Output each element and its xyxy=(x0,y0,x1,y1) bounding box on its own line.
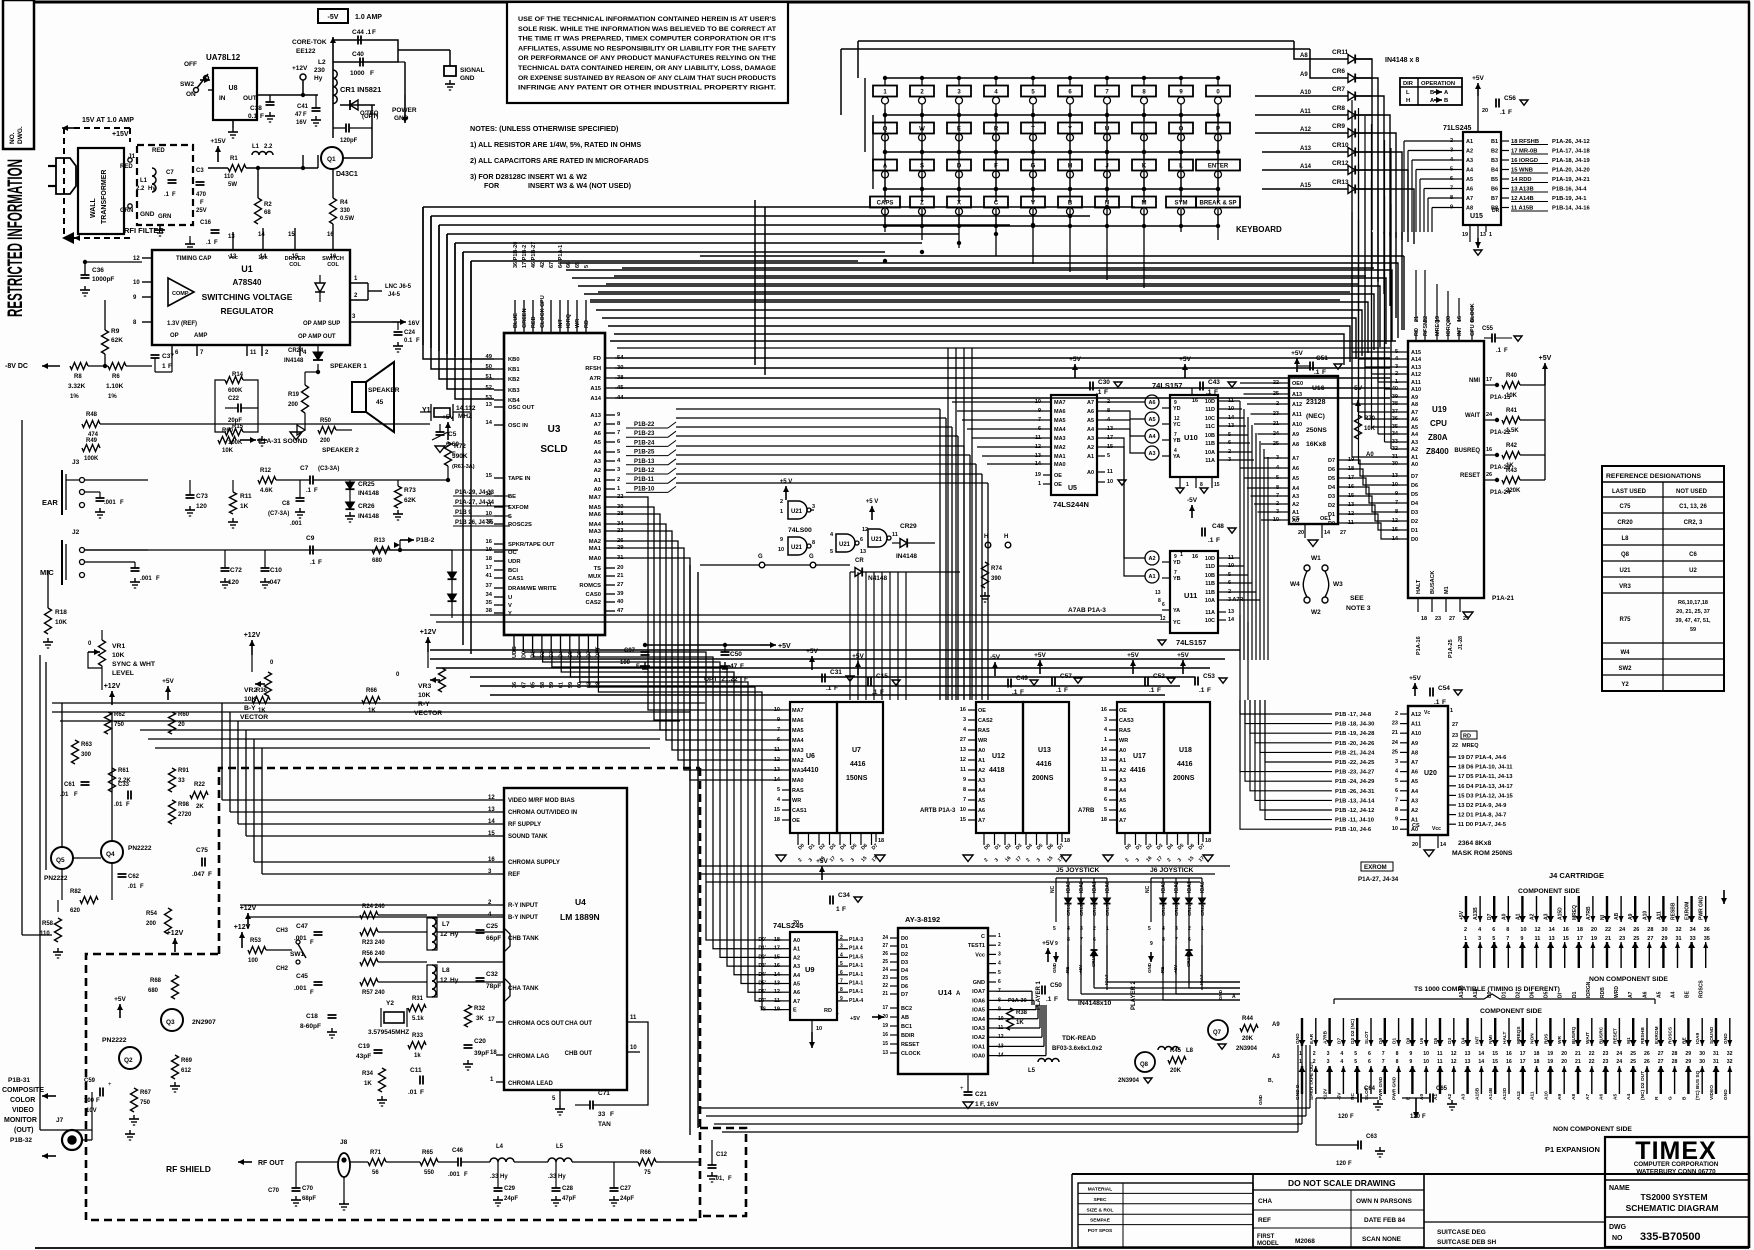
svg-text:2K: 2K xyxy=(196,804,204,810)
svg-text:-5V: -5V xyxy=(1187,497,1198,504)
svg-text:3: 3 xyxy=(1478,936,1481,942)
svg-text:CHROMA OUT/VIDEO IN: CHROMA OUT/VIDEO IN xyxy=(508,810,577,816)
svg-text:8: 8 xyxy=(1396,1059,1399,1065)
svg-text:MASK ROM 250NS: MASK ROM 250NS xyxy=(1452,850,1513,857)
svg-text:CR25: CR25 xyxy=(358,481,375,488)
svg-text:CR1 IN5821: CR1 IN5821 xyxy=(340,85,381,94)
svg-text:DWG: DWG xyxy=(1609,1224,1627,1231)
svg-text:16: 16 xyxy=(1506,1051,1512,1057)
svg-text:B,: B, xyxy=(1268,1078,1274,1084)
svg-text:R66: R66 xyxy=(640,1150,652,1156)
svg-text:24: 24 xyxy=(882,935,888,941)
svg-text:IOA0: IOA0 xyxy=(972,1054,985,1060)
svg-text:23: 23 xyxy=(1603,1051,1609,1057)
svg-text:A1: A1 xyxy=(793,947,800,953)
svg-text:CAS3: CAS3 xyxy=(1119,718,1134,724)
svg-text:C12: C12 xyxy=(716,1152,728,1158)
svg-text:YA: YA xyxy=(1173,608,1180,614)
svg-text:FOR: FOR xyxy=(484,181,500,190)
svg-text:11: 11 xyxy=(486,502,493,508)
svg-text:A1: A1 xyxy=(1411,455,1418,461)
svg-text:YB: YB xyxy=(1173,438,1181,444)
svg-text:D3: D3 xyxy=(1328,494,1335,500)
svg-text:5: 5 xyxy=(840,961,843,967)
svg-text:B: B xyxy=(1430,90,1434,96)
svg-text:WR: WR xyxy=(1557,1035,1563,1044)
svg-text:A14B: A14B xyxy=(1488,1087,1494,1100)
svg-text:16: 16 xyxy=(486,539,493,545)
svg-text:3: 3 xyxy=(1104,717,1107,723)
svg-text:11A: 11A xyxy=(1205,610,1215,616)
svg-text:335-B70500: 335-B70500 xyxy=(1640,1231,1701,1243)
svg-text:16: 16 xyxy=(1506,1059,1512,1065)
svg-text:A4: A4 xyxy=(1119,788,1127,794)
svg-text:A5: A5 xyxy=(1292,476,1299,482)
svg-text:PWR GND: PWR GND xyxy=(1392,1076,1398,1100)
svg-text:R56 240: R56 240 xyxy=(362,951,385,957)
svg-text:P1B-2: P1B-2 xyxy=(416,537,435,544)
svg-text:C32: C32 xyxy=(486,971,498,978)
svg-text:A5: A5 xyxy=(1411,779,1418,785)
svg-text:UA78L12: UA78L12 xyxy=(206,53,241,62)
svg-text:P1B-14, J4-16: P1B-14, J4-16 xyxy=(1552,206,1590,212)
svg-text:OE0: OE0 xyxy=(1292,381,1303,387)
svg-text:F: F xyxy=(214,240,218,246)
svg-text:1K: 1K xyxy=(240,503,249,510)
svg-text:12: 12 xyxy=(133,256,140,262)
svg-text:150NS: 150NS xyxy=(846,775,868,782)
svg-text:R69: R69 xyxy=(181,1058,193,1064)
svg-text:30: 30 xyxy=(1661,927,1667,933)
svg-text:TECHNICAL DATA CONTAINED HEREI: TECHNICAL DATA CONTAINED HEREIN, OR ANY … xyxy=(518,65,776,72)
svg-text:F: F xyxy=(310,990,314,996)
svg-text:19: 19 xyxy=(1035,472,1041,478)
svg-text:5: 5 xyxy=(830,549,833,555)
svg-text:R12: R12 xyxy=(260,468,272,474)
svg-text:A3: A3 xyxy=(793,964,800,970)
svg-text:R31: R31 xyxy=(412,996,424,1002)
svg-text:P1A-19, J4-21: P1A-19, J4-21 xyxy=(1552,177,1590,183)
svg-text:A1: A1 xyxy=(594,478,602,484)
svg-text:C50: C50 xyxy=(730,651,742,658)
svg-text:F: F xyxy=(416,338,420,344)
svg-text:A14: A14 xyxy=(1300,164,1312,170)
svg-text:R38: R38 xyxy=(1016,1010,1028,1016)
svg-text:A11: A11 xyxy=(1411,380,1421,386)
svg-text:D6: D6 xyxy=(1411,483,1418,489)
svg-text:F: F xyxy=(1104,389,1108,396)
svg-text:1K: 1K xyxy=(368,708,376,714)
svg-text:R43: R43 xyxy=(1506,468,1518,474)
svg-text:R91: R91 xyxy=(178,768,190,774)
svg-text:3: 3 xyxy=(840,944,843,950)
svg-text:14: 14 xyxy=(1324,530,1331,536)
svg-text:CAS2: CAS2 xyxy=(978,718,993,724)
svg-text:24: 24 xyxy=(1619,927,1626,933)
svg-text:A7AB P1A-3: A7AB P1A-3 xyxy=(1068,607,1106,614)
svg-text:YC: YC xyxy=(1173,620,1181,626)
svg-text:1: 1 xyxy=(836,1010,839,1016)
svg-text:MHZ: MHZ xyxy=(458,413,472,420)
svg-text:1K: 1K xyxy=(364,1081,372,1087)
svg-text:56: 56 xyxy=(372,1170,379,1176)
svg-text:27: 27 xyxy=(1340,530,1346,536)
svg-text:A6: A6 xyxy=(594,431,602,437)
svg-text:POWER: POWER xyxy=(392,107,417,114)
svg-text:F: F xyxy=(372,29,376,36)
svg-text:OC: OC xyxy=(508,550,518,556)
svg-text:C54: C54 xyxy=(1438,685,1450,692)
svg-text:RD: RD xyxy=(824,1008,832,1014)
svg-text:CR19: CR19 xyxy=(1161,904,1166,916)
svg-text:BDIR: BDIR xyxy=(901,1033,914,1039)
svg-text:C38: C38 xyxy=(250,105,262,112)
svg-text:A6: A6 xyxy=(1411,417,1418,423)
svg-text:A15: A15 xyxy=(1411,350,1421,356)
svg-text:A13: A13 xyxy=(1411,365,1421,371)
svg-text:F: F xyxy=(728,1176,732,1182)
svg-text:6: 6 xyxy=(1162,602,1165,608)
svg-text:18: 18 xyxy=(878,838,884,844)
svg-text:A5: A5 xyxy=(978,798,985,804)
svg-text:26: 26 xyxy=(1486,472,1492,478)
svg-text:P1B -17, J4-8: P1B -17, J4-8 xyxy=(1335,712,1372,718)
svg-text:13: 13 xyxy=(1465,1059,1471,1065)
svg-text:R68: R68 xyxy=(150,978,162,984)
svg-text:C64: C64 xyxy=(1364,1086,1376,1092)
svg-text:CR22: CR22 xyxy=(1200,904,1205,916)
svg-text:G: G xyxy=(809,554,814,560)
svg-text:3: 3 xyxy=(963,717,966,723)
svg-text:2: 2 xyxy=(617,477,620,483)
svg-text:A6: A6 xyxy=(1599,1094,1605,1100)
svg-text:A11: A11 xyxy=(1530,1091,1536,1100)
svg-text:Vcc: Vcc xyxy=(975,952,985,958)
svg-text:39pF: 39pF xyxy=(474,1050,489,1057)
svg-text:18: 18 xyxy=(774,817,780,823)
svg-text:A12: A12 xyxy=(1411,712,1421,718)
svg-text:18: 18 xyxy=(1064,838,1070,844)
svg-text:GRN: GRN xyxy=(158,214,171,220)
svg-text:Q3: Q3 xyxy=(166,1019,175,1026)
svg-text:C22: C22 xyxy=(228,396,240,402)
svg-text:C41: C41 xyxy=(297,104,309,110)
svg-text:34: 34 xyxy=(486,592,493,598)
svg-text:P1B -18, J4-30: P1B -18, J4-30 xyxy=(1335,722,1374,728)
svg-text:.001: .001 xyxy=(448,1172,460,1178)
svg-text:OSC IN: OSC IN xyxy=(508,423,528,429)
svg-text:J5 JOYSTICK: J5 JOYSTICK xyxy=(1056,867,1100,874)
svg-text:C65: C65 xyxy=(1436,1086,1448,1092)
svg-text:A12: A12 xyxy=(1516,1091,1522,1100)
svg-text:27: 27 xyxy=(1452,722,1458,728)
svg-text:CHROMA LAG: CHROMA LAG xyxy=(508,1054,549,1060)
svg-text:16V: 16V xyxy=(408,320,420,327)
svg-text:C53: C53 xyxy=(1203,673,1215,680)
svg-text:R41: R41 xyxy=(1506,408,1518,414)
svg-text:11: 11 xyxy=(250,350,257,356)
svg-text:C73: C73 xyxy=(196,493,208,500)
svg-text:A6: A6 xyxy=(1119,808,1126,814)
svg-text:Vcc: Vcc xyxy=(1432,826,1441,832)
svg-text:SEE: SEE xyxy=(1350,595,1364,602)
svg-text:1: 1 xyxy=(975,1101,979,1108)
svg-text:P1A-1: P1A-1 xyxy=(849,963,863,969)
svg-text:0.1: 0.1 xyxy=(404,338,413,344)
svg-text:RESTRICTED INFORMATION: RESTRICTED INFORMATION xyxy=(4,159,27,317)
svg-text:CR9: CR9 xyxy=(1332,123,1345,130)
svg-text:620: 620 xyxy=(70,908,81,914)
svg-text:L8: L8 xyxy=(442,967,450,974)
svg-text:24pF: 24pF xyxy=(504,1196,518,1202)
svg-text:.1: .1 xyxy=(1046,996,1052,1003)
svg-text:46 P1B-27: 46 P1B-27 xyxy=(531,242,537,268)
svg-text:J2: J2 xyxy=(72,529,80,536)
svg-text:MA4: MA4 xyxy=(589,522,602,528)
svg-text:24: 24 xyxy=(1616,1051,1622,1057)
svg-text:P1A-3: P1A-3 xyxy=(849,937,863,943)
svg-text:R66: R66 xyxy=(366,688,378,694)
svg-text:Hy: Hy xyxy=(450,977,459,984)
svg-text:GRN: GRN xyxy=(120,208,133,214)
svg-text:D5: D5 xyxy=(901,976,908,982)
svg-text:12: 12 xyxy=(486,491,492,497)
svg-text:21: 21 xyxy=(1414,316,1420,322)
svg-text:.001: .001 xyxy=(104,500,116,506)
svg-text:21: 21 xyxy=(1575,1059,1581,1065)
svg-text:GND: GND xyxy=(1258,1094,1263,1105)
svg-text:23: 23 xyxy=(1435,616,1441,622)
svg-text:1: 1 xyxy=(1180,552,1183,558)
svg-text:IOA0: IOA0 xyxy=(1105,881,1111,893)
svg-text:CR20: CR20 xyxy=(1617,520,1633,526)
svg-text:MATERIAL: MATERIAL xyxy=(1088,1187,1112,1193)
svg-text:P1A-18, J4-19: P1A-18, J4-19 xyxy=(1552,158,1590,164)
svg-text:30: 30 xyxy=(1699,1051,1705,1057)
svg-text:MA4: MA4 xyxy=(1054,427,1067,433)
svg-text:SUITCASE DEG: SUITCASE DEG xyxy=(1437,1229,1486,1236)
svg-text:5: 5 xyxy=(1107,453,1110,459)
svg-text:17 D5 P1A-11, J4-13: 17 D5 P1A-11, J4-13 xyxy=(1458,774,1513,780)
svg-text:A9: A9 xyxy=(1272,1022,1280,1028)
svg-text:C47: C47 xyxy=(296,923,308,930)
svg-text:IORGN: IORGN xyxy=(1586,981,1592,998)
svg-text:R54: R54 xyxy=(146,911,158,917)
svg-text:L4: L4 xyxy=(496,1144,504,1150)
svg-text:5: 5 xyxy=(1354,1051,1357,1057)
svg-text:(C3-3A): (C3-3A) xyxy=(318,466,339,472)
svg-text:13: 13 xyxy=(1155,590,1161,596)
svg-text:M2068: M2068 xyxy=(1295,1238,1315,1245)
svg-text:5: 5 xyxy=(584,265,590,268)
svg-text:9: 9 xyxy=(1409,1059,1412,1065)
svg-text:A10: A10 xyxy=(1543,1091,1549,1100)
svg-text:1000: 1000 xyxy=(350,70,365,77)
svg-text:U6: U6 xyxy=(806,753,815,760)
svg-text:10: 10 xyxy=(1107,479,1113,485)
svg-text:P1B -23, J4-27: P1B -23, J4-27 xyxy=(1335,770,1374,776)
svg-text:9: 9 xyxy=(1104,777,1107,783)
svg-text:9: 9 xyxy=(1150,941,1153,947)
svg-text:R82: R82 xyxy=(70,889,82,895)
svg-text:IOA3: IOA3 xyxy=(1161,881,1167,893)
svg-text:IOA1: IOA1 xyxy=(1092,881,1098,893)
svg-text:A7: A7 xyxy=(1411,760,1418,766)
svg-text:C34: C34 xyxy=(838,892,850,899)
svg-text:A13: A13 xyxy=(1292,392,1302,398)
svg-text:+5V: +5V xyxy=(850,1016,860,1022)
svg-text:17: 17 xyxy=(1520,1059,1526,1065)
svg-text:C50: C50 xyxy=(1050,982,1062,989)
svg-text:20: 20 xyxy=(1298,530,1304,536)
svg-text:9: 9 xyxy=(840,996,843,1002)
svg-text:47pF: 47pF xyxy=(562,1196,576,1202)
svg-text:U14: U14 xyxy=(938,988,953,997)
svg-text:GREEN: GREEN xyxy=(522,308,528,328)
svg-text:20: 20 xyxy=(1482,108,1488,114)
svg-text:A10: A10 xyxy=(1411,387,1421,393)
svg-text:28: 28 xyxy=(1672,1059,1678,1065)
svg-text:C45: C45 xyxy=(296,973,308,980)
svg-text:U21: U21 xyxy=(839,542,851,548)
svg-text:19: 19 xyxy=(1435,316,1441,322)
svg-text:1.10K: 1.10K xyxy=(106,383,124,390)
svg-text:VR3: VR3 xyxy=(418,683,431,690)
svg-text:A6: A6 xyxy=(793,990,800,996)
svg-text:P1B-22: P1B-22 xyxy=(634,422,655,428)
svg-text:52: 52 xyxy=(486,385,492,391)
svg-text:C5: C5 xyxy=(448,431,457,438)
svg-text:A14: A14 xyxy=(590,396,601,402)
svg-text:11: 11 xyxy=(1437,1059,1443,1065)
svg-text:W4: W4 xyxy=(1621,650,1631,656)
svg-text:PN2222: PN2222 xyxy=(44,875,68,882)
svg-text:9: 9 xyxy=(1409,1051,1412,1057)
svg-text:200: 200 xyxy=(320,438,331,444)
svg-text:R: R xyxy=(1654,1096,1660,1100)
svg-text:B7: B7 xyxy=(1491,196,1498,202)
svg-text:U21: U21 xyxy=(791,509,803,515)
svg-text:F: F xyxy=(1348,1161,1352,1167)
svg-text:DIR: DIR xyxy=(1403,81,1414,87)
svg-text:11B: 11B xyxy=(1205,441,1215,447)
svg-text:C56: C56 xyxy=(1504,95,1516,102)
svg-text:R32: R32 xyxy=(474,1006,486,1012)
svg-text:IOA4: IOA4 xyxy=(972,1017,986,1023)
svg-text:64 P1A-1: 64 P1A-1 xyxy=(558,245,564,268)
svg-text:F: F xyxy=(208,871,212,878)
svg-text:IOA1: IOA1 xyxy=(1187,881,1193,893)
svg-text:23128: 23128 xyxy=(1306,399,1326,406)
svg-text:A4: A4 xyxy=(1671,991,1677,998)
svg-text:7: 7 xyxy=(617,430,620,436)
svg-text:19: 19 xyxy=(1547,1059,1553,1065)
svg-text:18: 18 xyxy=(1101,817,1107,823)
svg-text:(NEC): (NEC) xyxy=(1306,413,1325,420)
svg-text:CHROMA LEAD: CHROMA LEAD xyxy=(508,1081,553,1087)
svg-text:45: 45 xyxy=(376,399,384,406)
svg-text:25: 25 xyxy=(1630,1051,1636,1057)
svg-text:THE TIME IT WAS PREPARED, TIME: THE TIME IT WAS PREPARED, TIMEX COMPUTER… xyxy=(518,36,776,43)
svg-text:-8V DC: -8V DC xyxy=(5,363,28,370)
svg-text:V: V xyxy=(508,603,512,609)
svg-text:F: F xyxy=(96,1098,100,1104)
svg-text:CR6: CR6 xyxy=(1332,68,1345,75)
svg-text:A5: A5 xyxy=(1656,991,1662,998)
svg-text:NOTE 3: NOTE 3 xyxy=(1346,605,1371,612)
svg-text:SPEAKER 1: SPEAKER 1 xyxy=(330,363,367,370)
svg-text:390: 390 xyxy=(991,576,1002,582)
svg-text:21: 21 xyxy=(1575,1051,1581,1057)
svg-text:C8: C8 xyxy=(282,501,290,507)
svg-text:10: 10 xyxy=(778,547,784,553)
svg-text:20: 20 xyxy=(1412,842,1418,848)
svg-text:R50: R50 xyxy=(320,418,332,424)
svg-text:RESET: RESET xyxy=(901,1042,920,1048)
svg-text:P1A-1: P1A-1 xyxy=(849,989,863,995)
svg-text:6: 6 xyxy=(840,970,843,976)
svg-text:2: 2 xyxy=(1395,711,1398,717)
svg-text:5: 5 xyxy=(1148,926,1151,932)
svg-text:NO: NO xyxy=(1612,1235,1623,1242)
svg-text:MA7: MA7 xyxy=(1054,400,1066,406)
svg-text:OE: OE xyxy=(978,708,986,714)
svg-text:-5V: -5V xyxy=(1336,1092,1342,1100)
svg-text:32: 32 xyxy=(486,519,492,525)
svg-text:A2: A2 xyxy=(1411,808,1418,814)
svg-text:C29: C29 xyxy=(504,1186,516,1192)
svg-text:A5: A5 xyxy=(1411,425,1418,431)
svg-text:2.2K: 2.2K xyxy=(118,778,131,784)
svg-text:Q8: Q8 xyxy=(1140,1062,1149,1068)
svg-text:RD: RD xyxy=(1414,328,1420,336)
svg-text:F: F xyxy=(1216,537,1220,544)
svg-text:13: 13 xyxy=(486,402,493,408)
svg-text:TS: TS xyxy=(594,566,602,572)
svg-text:R71: R71 xyxy=(370,1150,382,1156)
svg-text:A2: A2 xyxy=(1447,1094,1453,1100)
svg-text:14.112: 14.112 xyxy=(456,405,476,412)
svg-text:A2: A2 xyxy=(1292,502,1299,508)
svg-text:D7: D7 xyxy=(1411,474,1418,480)
svg-text:A5: A5 xyxy=(594,440,602,446)
svg-text:12 D1 P1A-8, J4-7: 12 D1 P1A-8, J4-7 xyxy=(1458,813,1506,819)
svg-text:17: 17 xyxy=(1486,377,1492,383)
svg-text:A12: A12 xyxy=(1411,372,1421,378)
svg-text:SW2: SW2 xyxy=(1618,666,1632,672)
svg-text:COMPUTER CORPORATION: COMPUTER CORPORATION xyxy=(1634,1161,1719,1168)
svg-text:250NS: 250NS xyxy=(1306,427,1327,434)
svg-text:A7R: A7R xyxy=(589,376,601,382)
svg-text:CAS1: CAS1 xyxy=(792,808,807,814)
svg-text:MODEL: MODEL xyxy=(1257,1241,1279,1247)
svg-text:D3: D3 xyxy=(1411,510,1418,516)
svg-text:BCI: BCI xyxy=(508,568,518,574)
svg-text:27: 27 xyxy=(1658,1059,1664,1065)
svg-text:1: 1 xyxy=(998,933,1001,939)
svg-text:P1A 4: P1A 4 xyxy=(849,946,863,952)
svg-text:200: 200 xyxy=(288,402,299,408)
svg-text:R11: R11 xyxy=(240,493,252,500)
svg-text:KB0: KB0 xyxy=(508,357,520,363)
svg-text:120: 120 xyxy=(1338,1114,1349,1120)
svg-text:HALT: HALT xyxy=(1502,1031,1508,1044)
svg-text:21: 21 xyxy=(882,991,888,997)
svg-text:H: H xyxy=(1406,98,1410,104)
svg-text:IOA3: IOA3 xyxy=(972,1026,985,1032)
svg-text:1: 1 xyxy=(836,906,840,913)
svg-text:R75: R75 xyxy=(1619,617,1631,623)
